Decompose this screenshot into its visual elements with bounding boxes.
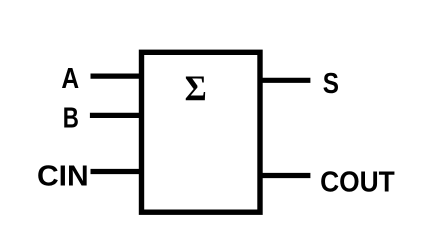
svg-text:CIN: CIN bbox=[37, 160, 89, 192]
wire input B bbox=[90, 113, 142, 118]
wire input CIN bbox=[91, 169, 143, 174]
wire output S bbox=[259, 78, 310, 83]
svg-text:B: B bbox=[63, 103, 79, 134]
wire input A bbox=[91, 73, 143, 78]
full-adder block U1 bbox=[142, 52, 261, 212]
svg-text:COUT: COUT bbox=[320, 166, 395, 198]
svg-text:Σ: Σ bbox=[185, 68, 207, 108]
wire output COUT bbox=[259, 173, 310, 178]
svg-text:S: S bbox=[323, 67, 339, 99]
svg-text:A: A bbox=[61, 62, 79, 94]
